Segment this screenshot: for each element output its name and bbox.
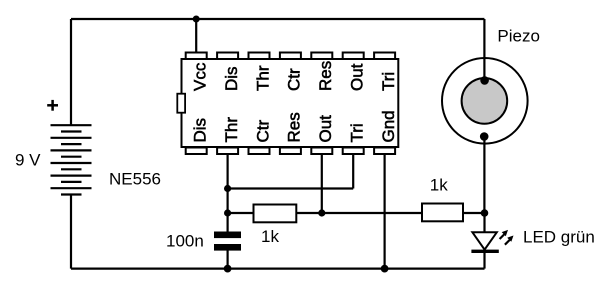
wire Gnd lead — [384, 154, 386, 269]
battery plus label — [47, 100, 58, 111]
svg-text:Out: Out — [348, 63, 367, 91]
svg-text:Vcc: Vcc — [191, 62, 210, 91]
svg-text:1k: 1k — [430, 175, 448, 194]
capacitor C1 100n — [214, 232, 241, 251]
pin label Out (bottom) — [316, 115, 335, 143]
svg-text:1k: 1k — [261, 227, 279, 246]
svg-text:100n: 100n — [166, 232, 204, 251]
wire node to R1 — [228, 212, 254, 214]
svg-text:Piezo: Piezo — [497, 27, 540, 46]
piezo bottom contact dot — [480, 132, 489, 141]
svg-text:Res: Res — [316, 61, 335, 91]
pin label Vcc (top) — [191, 62, 210, 91]
IC value label NE556 — [109, 169, 161, 188]
LED light arrow 1 — [500, 230, 508, 239]
node capacitor-rail junction — [224, 265, 232, 273]
wire Thr lead down to capacitor — [227, 154, 229, 233]
pin label Tri (bottom) — [348, 123, 367, 142]
pin label Out (top) — [348, 63, 367, 91]
svg-text:9 V: 9 V — [15, 151, 41, 170]
LED label — [523, 228, 595, 247]
svg-text:Gnd: Gnd — [379, 110, 398, 142]
resistor R2 1k — [422, 204, 463, 222]
svg-text:LED grün: LED grün — [523, 228, 595, 247]
wire battery positive lead — [70, 19, 72, 125]
pin label Thr (top) — [253, 65, 272, 91]
battery B1 9V — [51, 125, 92, 194]
pin label Gnd (bottom) — [379, 110, 398, 142]
wire capacitor to bottom rail — [227, 250, 229, 269]
LED D1 triangle — [472, 232, 496, 249]
node R2-LED junction — [481, 209, 489, 217]
svg-text:Thr: Thr — [253, 65, 272, 91]
svg-text:Tri: Tri — [379, 72, 398, 91]
svg-text:Res: Res — [285, 112, 304, 142]
svg-text:Dis: Dis — [222, 66, 241, 91]
wire R2 to LED node — [463, 212, 485, 214]
svg-text:Thr: Thr — [222, 117, 241, 143]
piezo top contact dot — [480, 76, 489, 85]
svg-text:Tri: Tri — [348, 123, 367, 142]
node Thr-Tri junction — [224, 185, 231, 192]
IC U1 NE556 pins top row — [186, 53, 395, 60]
piezo transducer outer ring — [442, 58, 528, 144]
pin label Ctr (bottom) — [253, 120, 272, 143]
IC pin-1 notch mark — [177, 94, 185, 113]
pin label Res (bottom) — [285, 112, 304, 142]
LED D1 cathode bar — [471, 250, 498, 253]
pin label Thr (bottom) — [222, 117, 241, 143]
wire Out lead — [321, 154, 323, 214]
svg-text:Ctr: Ctr — [285, 68, 304, 91]
wire R1 to R2 — [296, 212, 423, 214]
capacitor C1 value 100n — [166, 232, 204, 251]
wire piezo bottom lead — [483, 137, 485, 214]
resistor R2 value 1k — [430, 175, 448, 194]
node Out-R1 junction — [318, 209, 325, 216]
resistor R1 1k — [254, 205, 297, 223]
node Gnd-rail junction — [381, 265, 389, 273]
battery value 9 V — [15, 151, 41, 170]
svg-text:Dis: Dis — [191, 118, 210, 143]
pin label Dis (top) — [222, 66, 241, 91]
piezo label — [497, 27, 540, 46]
LED light arrow 2 — [505, 236, 514, 245]
wire LED anode lead — [483, 213, 485, 233]
node Thr-R1 junction — [224, 209, 231, 216]
wire Thr-Tri horizontal — [228, 187, 354, 189]
pin label Tri (top) — [379, 72, 398, 91]
pin label Ctr (top) — [285, 68, 304, 91]
wire bottom rail — [71, 268, 485, 270]
svg-text:Ctr: Ctr — [253, 120, 272, 143]
wire piezo top lead — [483, 19, 485, 80]
node Vcc junction — [193, 16, 200, 23]
IC U1 NE556 pins bottom row — [186, 148, 395, 155]
wire Tri lead — [352, 154, 354, 189]
pin label Res (top) — [316, 61, 335, 91]
wire Vcc lead — [195, 19, 197, 54]
wire LED cathode lead — [483, 251, 485, 269]
IC U1 NE556 body — [182, 59, 399, 147]
svg-text:NE556: NE556 — [109, 169, 161, 188]
wire top rail — [71, 18, 484, 20]
pin label Dis (bottom) — [191, 118, 210, 143]
svg-text:Out: Out — [316, 115, 335, 143]
resistor R1 value 1k — [261, 227, 279, 246]
wire battery negative lead — [70, 195, 72, 269]
piezo disc — [462, 78, 508, 124]
